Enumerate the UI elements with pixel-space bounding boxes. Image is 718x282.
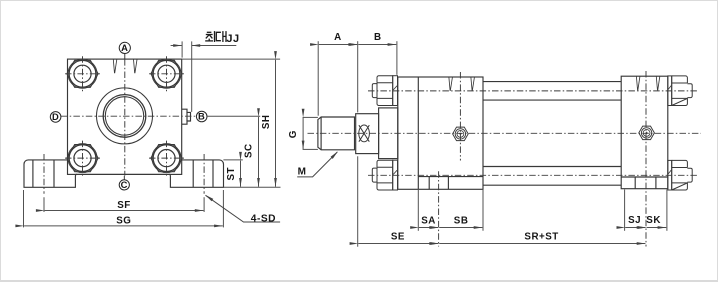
- svg-text:SA: SA: [421, 215, 436, 226]
- svg-text:SG: SG: [116, 216, 131, 227]
- svg-text:SB: SB: [454, 215, 469, 226]
- svg-text:G: G: [288, 130, 299, 138]
- svg-text:B: B: [198, 111, 205, 122]
- svg-text:M: M: [298, 166, 307, 177]
- svg-text:A: A: [334, 32, 342, 43]
- svg-text:SH: SH: [261, 114, 272, 129]
- svg-text:SK: SK: [646, 215, 661, 226]
- svg-text:B: B: [374, 32, 382, 43]
- svg-text:SR+ST: SR+ST: [524, 232, 558, 243]
- svg-text:D: D: [52, 111, 59, 122]
- svg-text:SC: SC: [243, 143, 254, 158]
- svg-text:A: A: [121, 42, 128, 53]
- svg-text:SJ: SJ: [628, 215, 641, 226]
- svg-text:SF: SF: [117, 200, 131, 211]
- svg-text:JJ: JJ: [226, 33, 239, 45]
- svg-text:C: C: [121, 179, 128, 190]
- svg-text:SE: SE: [391, 232, 405, 243]
- svg-text:ST: ST: [226, 167, 237, 181]
- svg-text:4-SD: 4-SD: [251, 213, 276, 224]
